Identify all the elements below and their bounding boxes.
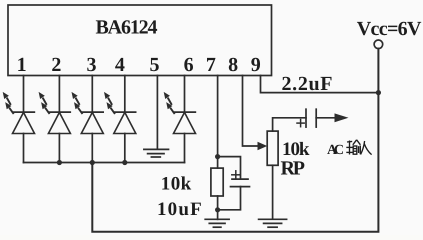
svg-text:2: 2: [51, 54, 61, 76]
svg-text:1: 1: [17, 54, 27, 76]
svg-text:5: 5: [150, 54, 160, 76]
svg-text:RP: RP: [281, 158, 306, 180]
svg-text:3: 3: [87, 54, 97, 76]
svg-text:10k: 10k: [161, 173, 192, 194]
svg-text:2.2uF: 2.2uF: [282, 73, 333, 95]
svg-text:4: 4: [115, 54, 125, 76]
svg-text:Vcc=6V: Vcc=6V: [357, 18, 422, 40]
svg-text:AC: AC: [327, 143, 344, 158]
svg-text:10uF: 10uF: [157, 199, 202, 220]
svg-text:8: 8: [228, 54, 238, 76]
svg-text:6: 6: [184, 54, 194, 76]
svg-text:9: 9: [251, 54, 261, 76]
svg-text:7: 7: [206, 54, 216, 76]
svg-text:BA6124: BA6124: [96, 16, 158, 38]
